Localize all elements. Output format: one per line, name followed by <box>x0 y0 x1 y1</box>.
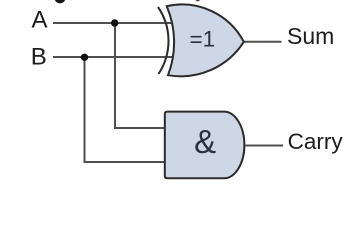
and gate U2 body <box>165 112 245 179</box>
xor gate U1 body <box>167 4 244 76</box>
junction dot on wire B <box>81 54 88 61</box>
svg-text:=1: =1 <box>190 27 216 52</box>
junction dot on wire A <box>111 19 118 26</box>
svg-text:A: A <box>32 7 48 34</box>
wire A horizontal <box>53 22 175 24</box>
wire B horizontal <box>53 56 176 58</box>
clipped text remnant at top edge middle <box>195 0 200 1</box>
svg-text:&: & <box>194 123 216 160</box>
wire Carry output <box>246 145 284 147</box>
svg-text:Carry: Carry <box>288 129 344 154</box>
clipped text remnant at top edge left <box>55 0 65 3</box>
wire Sum output <box>244 41 282 43</box>
svg-text:B: B <box>31 43 47 70</box>
wire B branch to AND input 2 <box>85 57 167 162</box>
svg-text:Sum: Sum <box>287 23 334 49</box>
xor gate U1 extra input-side arc <box>158 7 168 74</box>
wire A branch to AND input 1 <box>115 23 166 128</box>
